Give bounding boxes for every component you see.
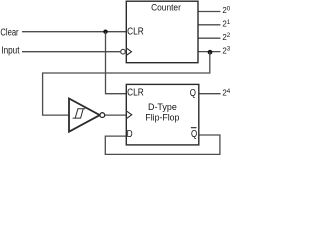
svg-text:3: 3 [227,46,230,53]
wire Clear net horizontal [22,31,126,33]
svg-text:Counter: Counter [151,3,181,13]
wire flip-flop Qbar feedback to D input [105,135,220,154]
flip-flop Qbar overline [191,127,197,129]
node 2^3 junction [208,50,213,55]
svg-text:Q: Q [190,88,197,99]
svg-text:D-Type: D-Type [148,102,177,112]
svg-text:2: 2 [227,32,230,39]
wire counter output stub 2^1 [198,24,220,26]
svg-text:Q: Q [191,129,198,140]
counter U1 box [126,1,198,63]
wire flip-flop Q output stub 2^4 [199,93,221,95]
svg-text:CLR: CLR [127,27,144,38]
wire counter output stub 2^0 [198,11,220,13]
svg-text:1: 1 [227,19,230,26]
svg-text:Clear: Clear [0,27,19,38]
inverter hysteresis symbol [73,109,86,118]
node Clear junction [103,30,107,34]
inverter output bubble [100,113,105,118]
svg-text:0: 0 [227,5,230,12]
counter clock chevron [127,48,132,55]
svg-text:Flip-Flop: Flip-Flop [145,112,179,122]
inverter U3 schmitt trigger triangle [69,99,100,132]
svg-text:Input: Input [1,45,19,56]
svg-text:CLR: CLR [127,88,144,99]
counter clock input bubble [121,49,126,54]
flip-flop clock chevron [127,111,132,118]
wire counter output stub 2^3 [198,51,220,53]
wire Input net horizontal [22,51,121,53]
wire inverter output to flip-flop clock [105,114,127,116]
svg-text:4: 4 [227,88,230,95]
wire counter output stub 2^2 [198,37,220,39]
svg-text:D: D [127,129,133,140]
flip-flop U2 box [126,84,199,144]
wire feedback 2^3 to inverter input [43,52,210,116]
wire Clear junction down to flip-flop CLR [106,32,127,94]
